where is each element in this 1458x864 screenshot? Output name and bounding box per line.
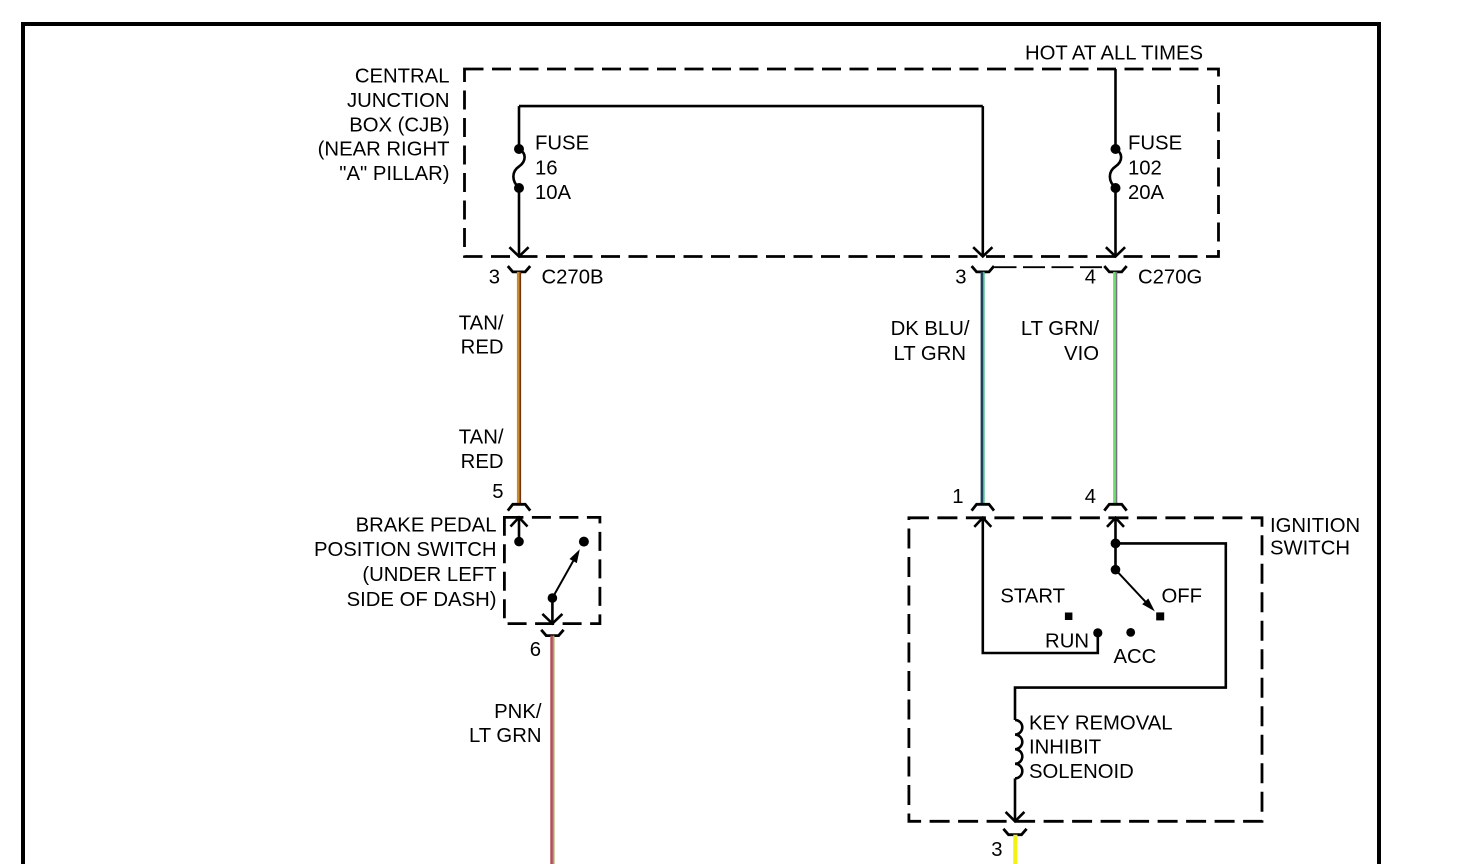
svg-text:TAN/: TAN/ (459, 312, 504, 334)
node: switch pivot dot (1111, 565, 1121, 575)
svg-text:CENTRAL: CENTRAL (355, 66, 450, 88)
arrow at CJB pin 3 (C270G) (973, 247, 992, 256)
contact: START (square) (1065, 613, 1073, 621)
arrow into brake switch pin 5 (511, 517, 528, 526)
svg-text:LT GRN/: LT GRN/ (1021, 318, 1099, 340)
label: DK BLU/LT GRN (891, 318, 970, 365)
ignition switch dashed outline (909, 518, 1262, 822)
svg-text:IGNITION: IGNITION (1270, 515, 1360, 537)
svg-text:RUN: RUN (1045, 630, 1089, 652)
svg-text:LT GRN: LT GRN (894, 343, 967, 365)
wire: ignition pin 4 feed to solenoid (1015, 518, 1226, 720)
wire: brake output shaft (551, 598, 554, 624)
wire: CJB internal bus from fuse 16 top to pin 3 drop (519, 105, 983, 108)
svg-text:(NEAR RIGHT: (NEAR RIGHT (318, 139, 450, 161)
switch blade (ignition) (1116, 570, 1147, 603)
connector C270B pin 3 bracket (508, 266, 530, 272)
arrow at CJB pin 3 (C270B) (509, 247, 528, 256)
svg-text:4: 4 (1085, 267, 1096, 289)
svg-text:6: 6 (530, 639, 541, 661)
node: pin 4 junction dot (1111, 539, 1121, 549)
wire: solenoid to ignition pin 3 (1014, 778, 1017, 821)
label: KEY REMOVAL INHIBIT SOLENOID (1029, 712, 1173, 782)
node: brake switch input contact (514, 537, 524, 547)
wire DK BLU/LT GRN (lt green stripe) (983, 272, 985, 504)
svg-text:TAN/: TAN/ (459, 427, 504, 449)
connector C270G pin 4 bracket (1104, 266, 1126, 272)
key removal inhibit solenoid coil (1015, 720, 1022, 778)
svg-text:VIO: VIO (1064, 343, 1099, 365)
fuse F16 top terminal dot (514, 144, 524, 154)
wire TAN/RED (red stripe) (519, 272, 521, 505)
svg-text:DK BLU/: DK BLU/ (891, 318, 970, 340)
svg-text:5: 5 (492, 481, 503, 503)
svg-text:INHIBIT: INHIBIT (1029, 737, 1101, 759)
label: CENTRAL JUNCTION BOX (CJB) (NEAR RIGHT "A" PILLAR) (318, 66, 450, 185)
arrow at CJB pin 4 (C270G) (1106, 247, 1125, 256)
label: TAN/RED (lower) (459, 427, 504, 473)
contact: RUN (dot) (1093, 628, 1102, 637)
node: brake switch output contact (548, 593, 558, 603)
wire: fuse 16 top lead (518, 106, 521, 149)
svg-text:KEY REMOVAL: KEY REMOVAL (1029, 712, 1173, 734)
svg-text:OFF: OFF (1162, 586, 1203, 608)
label: LT GRN/VIO (1021, 318, 1099, 365)
connector bracket above ignition pin 4 (1104, 504, 1126, 510)
svg-text:SWITCH: SWITCH (1270, 538, 1350, 560)
svg-text:4: 4 (1085, 486, 1096, 508)
central junction box (CJB) dashed outline (465, 69, 1219, 257)
svg-text:3: 3 (955, 267, 966, 289)
svg-text:C270G: C270G (1138, 267, 1202, 289)
switch blade (brake) (552, 561, 573, 598)
svg-text:SIDE OF DASH): SIDE OF DASH) (347, 589, 497, 611)
connector bracket below ignition pin 3 (1003, 829, 1026, 835)
fuse F16 bottom terminal dot (514, 183, 524, 193)
arrow at ignition pin 3 (1006, 812, 1025, 821)
svg-text:BOX (CJB): BOX (CJB) (349, 114, 449, 136)
arrow into ignition pin 1 (974, 518, 991, 527)
arrow into ignition pin 4 (1107, 518, 1124, 527)
wire: hot feed from top edge to fuse 102 (1114, 69, 1117, 149)
node: brake switch upper right contact (579, 537, 589, 547)
fuse F102 bottom terminal dot (1111, 183, 1121, 193)
wire LT GRN/VIO (lt green) (1113, 272, 1116, 504)
contact: OFF (square) (1156, 612, 1164, 620)
label: IGNITION SWITCH (1270, 515, 1360, 559)
connector bracket below brake switch pin 6 (541, 630, 563, 636)
svg-text:ACC: ACC (1114, 646, 1157, 668)
label: BRAKE PEDAL POSITION SWITCH (UNDER LEFT SIDE OF DASH) (314, 515, 497, 611)
wire LT GRN/VIO (violet stripe) (1116, 272, 1118, 504)
contact: ACC (dot) (1126, 628, 1135, 637)
svg-text:(UNDER LEFT: (UNDER LEFT (362, 564, 496, 586)
svg-text:START: START (1000, 586, 1065, 608)
svg-text:1: 1 (952, 486, 963, 508)
svg-text:RED: RED (461, 451, 504, 473)
wire YEL (1013, 835, 1017, 864)
svg-text:16: 16 (535, 158, 558, 180)
label: TAN/RED (upper) (459, 312, 504, 358)
svg-text:FUSE: FUSE (1128, 133, 1182, 155)
wire: fuse 102 output to CJB pin 4 (1114, 188, 1117, 257)
connector C270G pin 3 bracket (972, 266, 994, 272)
wire: ignition pin 1 to RUN contact (983, 518, 1098, 653)
svg-text:"A" PILLAR): "A" PILLAR) (339, 163, 449, 185)
label: FUSE 16 10A (535, 133, 589, 204)
svg-text:HOT AT ALL TIMES: HOT AT ALL TIMES (1025, 43, 1203, 65)
svg-text:LT GRN: LT GRN (469, 725, 542, 747)
svg-text:3: 3 (991, 839, 1002, 861)
svg-text:JUNCTION: JUNCTION (347, 90, 450, 112)
wire: bus drop to CJB pin 3 of C270G (981, 106, 984, 256)
svg-text:10A: 10A (535, 182, 572, 204)
fuse F16 element (S-curve) (513, 149, 524, 188)
wire TAN/RED (tan) (517, 272, 520, 505)
svg-text:FUSE: FUSE (535, 133, 589, 155)
svg-text:RED: RED (461, 337, 504, 359)
svg-text:102: 102 (1128, 158, 1162, 180)
svg-text:POSITION SWITCH: POSITION SWITCH (314, 539, 497, 561)
svg-text:20A: 20A (1128, 182, 1165, 204)
arrow out of brake switch pin 6 (542, 614, 562, 624)
connector bracket above ignition pin 1 (972, 504, 994, 510)
connector bracket above brake switch pin 5 (508, 504, 530, 510)
svg-text:3: 3 (489, 267, 500, 289)
wire PNK/LT GRN (lt green stripe) (553, 636, 555, 864)
fuse F102 element (S-curve) (1110, 149, 1121, 188)
fuse F102 top terminal dot (1111, 144, 1121, 154)
wire DK BLU/LT GRN (dk blue) (981, 272, 983, 504)
switch blade arrowhead (ignition) (1142, 599, 1155, 612)
svg-text:SOLENOID: SOLENOID (1029, 761, 1134, 783)
svg-text:BRAKE PEDAL: BRAKE PEDAL (356, 515, 497, 537)
svg-text:PNK/: PNK/ (494, 701, 542, 723)
switch blade arrowhead (brake) (570, 549, 580, 563)
wire PNK/LT GRN (pink) (550, 636, 553, 864)
brake pedal position switch dashed outline (504, 517, 600, 623)
wire: fuse 16 output to CJB pin 3 (518, 188, 521, 257)
connector C270G body dashed link (995, 266, 1104, 268)
label: FUSE 102 20A (1128, 133, 1182, 204)
label: PNK/LT GRN (469, 701, 542, 747)
svg-text:C270B: C270B (542, 267, 604, 289)
wire: pin 5 arrow shaft (518, 517, 521, 538)
